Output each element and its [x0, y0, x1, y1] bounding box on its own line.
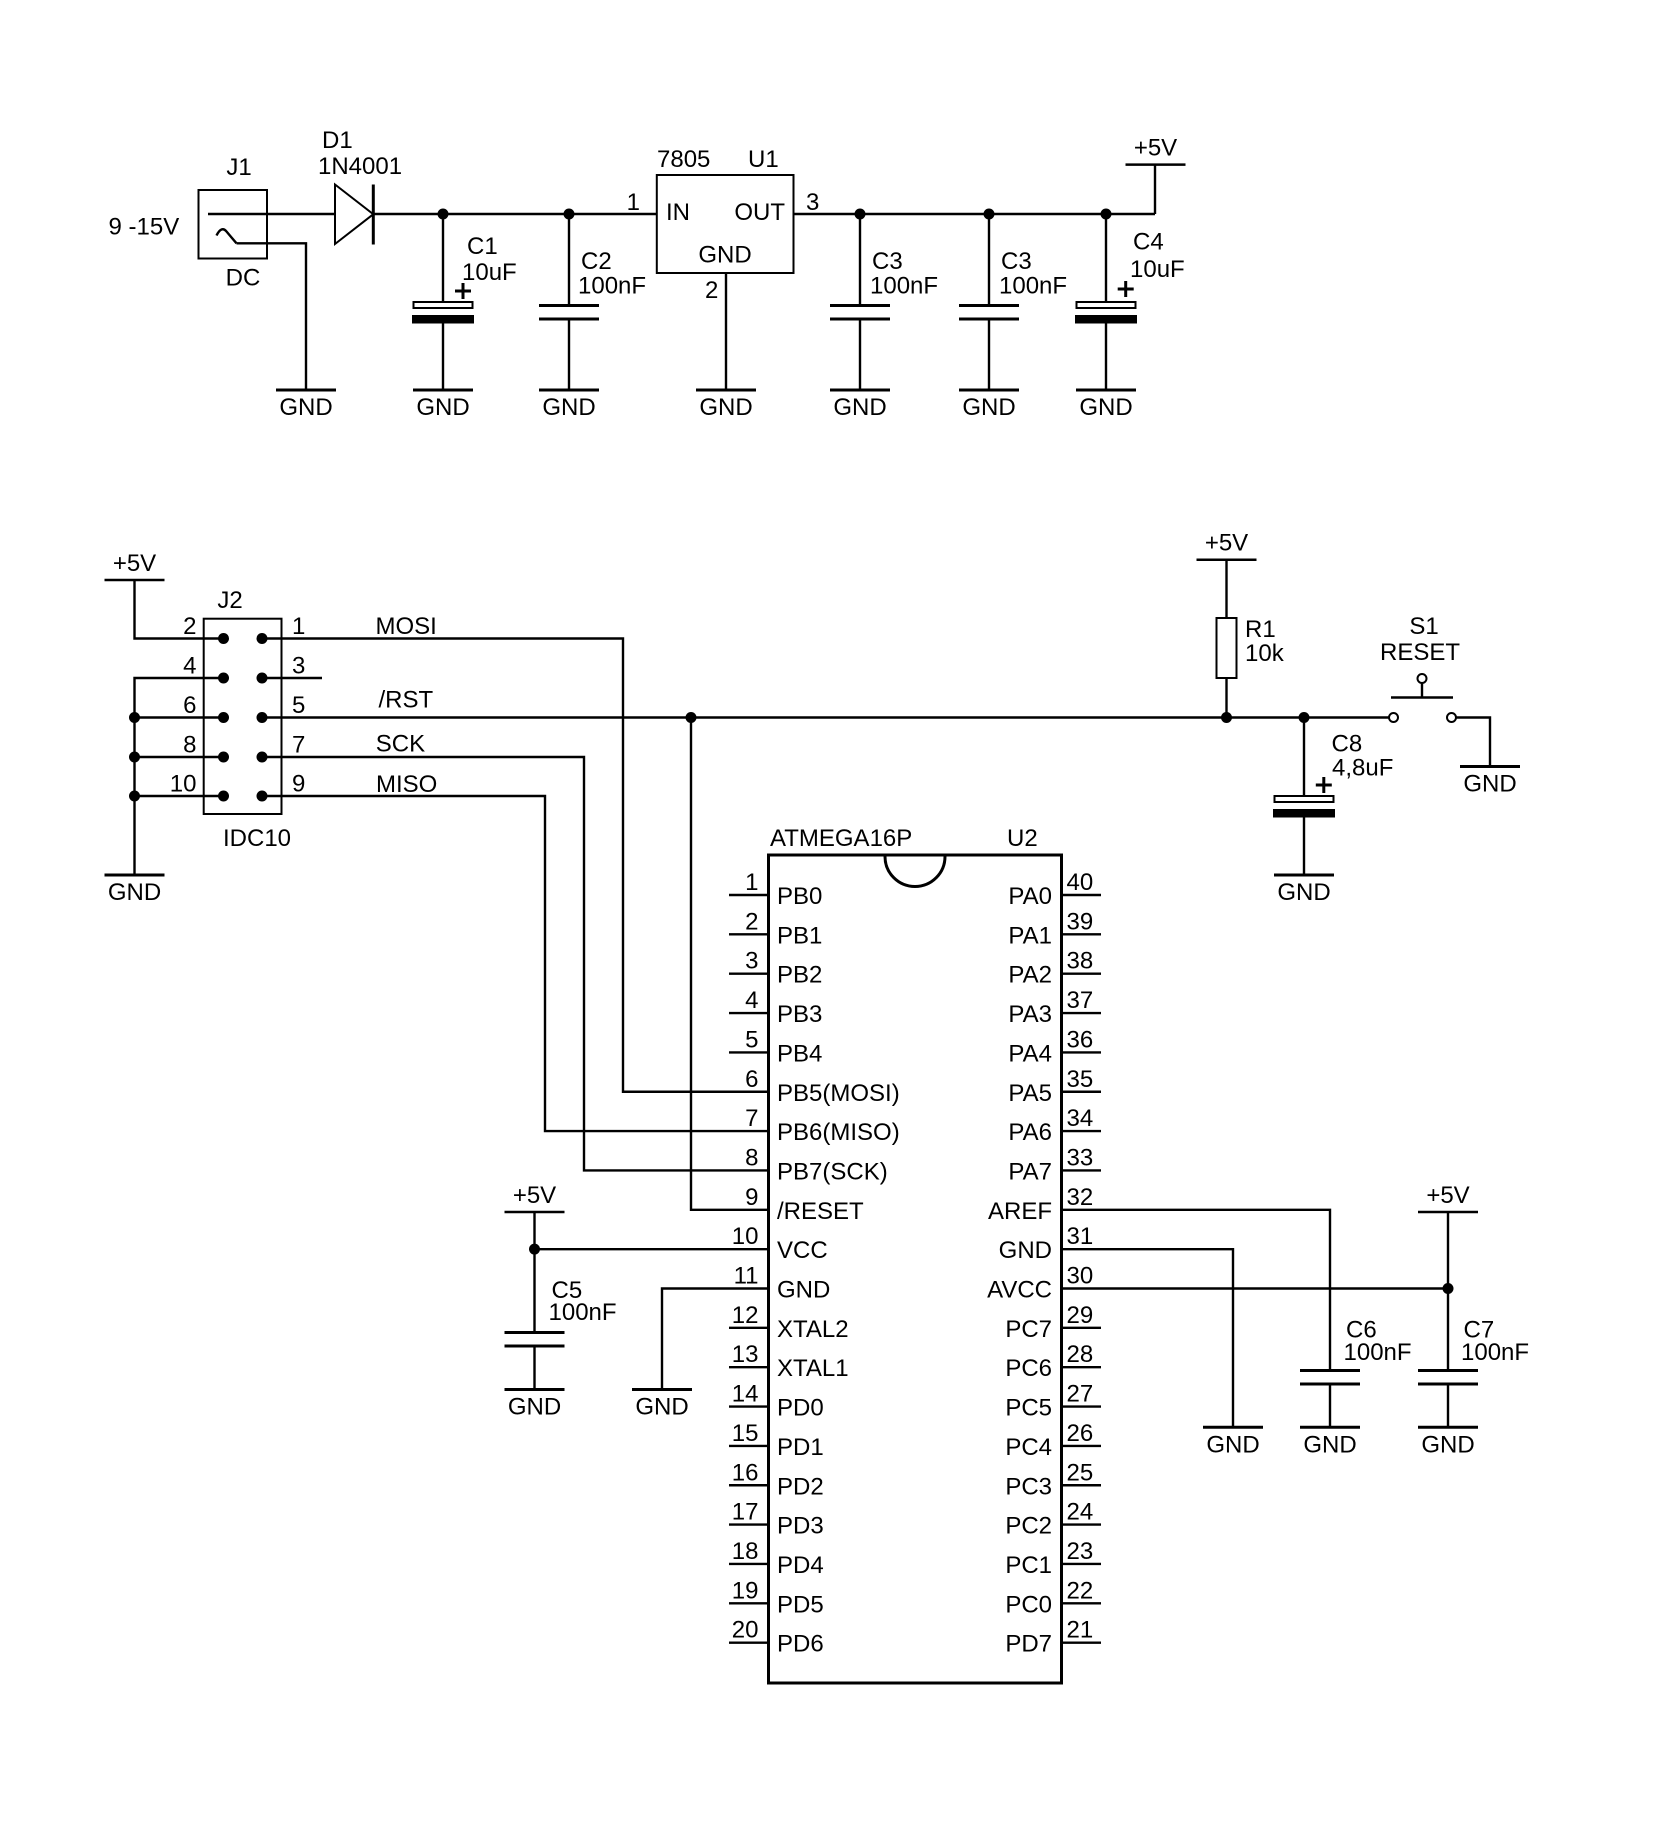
- ground (U1): [696, 389, 756, 392]
- svg-text:38: 38: [1067, 948, 1094, 975]
- svg-text:GND: GND: [999, 1237, 1052, 1264]
- svg-text:PC5: PC5: [1005, 1395, 1052, 1422]
- svg-text:R1: R1: [1245, 616, 1276, 643]
- svg-text:SCK: SCK: [376, 731, 425, 758]
- ground (U2 pin 31): [1203, 1426, 1263, 1429]
- svg-text:4: 4: [745, 987, 758, 1014]
- ground (U2 pin 11): [632, 1388, 692, 1391]
- svg-text:PC3: PC3: [1005, 1473, 1052, 1500]
- U2 pin 29 (PC7): [1062, 1327, 1102, 1329]
- J2 pin 6 stub: [135, 716, 224, 718]
- +5V (J2): [105, 579, 165, 582]
- svg-text:PA7: PA7: [1008, 1158, 1052, 1185]
- svg-text:GND: GND: [1421, 1431, 1474, 1458]
- svg-text:PD0: PD0: [777, 1395, 824, 1422]
- svg-text:100nF: 100nF: [578, 273, 646, 300]
- svg-text:+5V: +5V: [1134, 135, 1177, 162]
- svg-text:PA0: PA0: [1008, 883, 1052, 910]
- +5V (AVCC): [1418, 1211, 1478, 1214]
- svg-text:PA6: PA6: [1008, 1119, 1052, 1146]
- J2 pin dots row 1: [218, 633, 229, 644]
- svg-text:GND: GND: [279, 394, 332, 421]
- U2 pin 39 (PA1): [1062, 933, 1102, 935]
- svg-text:XTAL1: XTAL1: [777, 1355, 849, 1382]
- svg-text:7: 7: [745, 1105, 758, 1132]
- svg-text:U1: U1: [748, 146, 779, 173]
- svg-text:25: 25: [1067, 1459, 1094, 1486]
- svg-text:7: 7: [292, 732, 305, 759]
- svg-text:9: 9: [292, 771, 305, 798]
- svg-text:J1: J1: [226, 154, 251, 181]
- svg-text:19: 19: [732, 1577, 759, 1604]
- svg-text:26: 26: [1067, 1420, 1094, 1447]
- svg-text:PC2: PC2: [1005, 1513, 1052, 1540]
- svg-text:PA2: PA2: [1008, 962, 1052, 989]
- svg-text:IN: IN: [666, 199, 690, 226]
- svg-text:C8: C8: [1332, 731, 1363, 758]
- wire U1 OUT to +5V: [794, 213, 1156, 215]
- node R1 to /RST: [1221, 712, 1232, 723]
- U1 pin 2 wire: [725, 273, 727, 390]
- ground (S1): [1460, 765, 1520, 768]
- +5V (R1): [1197, 558, 1257, 561]
- svg-text:100nF: 100nF: [549, 1299, 617, 1326]
- connector J1 (DC jack): [199, 190, 268, 259]
- svg-text:PA4: PA4: [1008, 1040, 1052, 1067]
- capacitor C2 100nF: [568, 214, 570, 306]
- svg-text:10k: 10k: [1245, 640, 1285, 667]
- svg-text:C3: C3: [1001, 248, 1032, 275]
- svg-text:C1: C1: [467, 233, 498, 260]
- svg-text:GND: GND: [699, 394, 752, 421]
- wire AVCC net: [1062, 1287, 1449, 1289]
- svg-text:5: 5: [292, 692, 305, 719]
- svg-text:PC6: PC6: [1005, 1355, 1052, 1382]
- wire D1 to U1 IN: [373, 213, 657, 215]
- svg-text:GND: GND: [1206, 1431, 1259, 1458]
- U2 pin 16 (PD2): [729, 1484, 769, 1486]
- svg-text:27: 27: [1067, 1381, 1094, 1408]
- J2 pin 8 stub: [135, 756, 224, 758]
- junction pin10 rail: [129, 791, 140, 802]
- svg-text:D1: D1: [322, 127, 353, 154]
- wire MISO net: [262, 796, 769, 1131]
- svg-text:5: 5: [745, 1026, 758, 1053]
- U2 pin 37 (PA3): [1062, 1012, 1102, 1014]
- wire S1 to ground: [1456, 718, 1490, 767]
- svg-text:S1: S1: [1409, 613, 1438, 640]
- U2 pin 35 (PA5): [1062, 1091, 1102, 1093]
- svg-text:+5V: +5V: [1426, 1182, 1469, 1209]
- svg-text:GND: GND: [1463, 771, 1516, 798]
- svg-text:34: 34: [1067, 1105, 1094, 1132]
- capacitor C3 (first) 100nF: [859, 214, 861, 306]
- J2 left ground rail: [135, 678, 224, 875]
- svg-text:22: 22: [1067, 1577, 1094, 1604]
- svg-text:GND: GND: [962, 394, 1015, 421]
- svg-text:PD1: PD1: [777, 1434, 824, 1461]
- svg-text:PD4: PD4: [777, 1552, 824, 1579]
- svg-text:10uF: 10uF: [462, 259, 517, 286]
- svg-text:6: 6: [183, 692, 196, 719]
- svg-text:PD5: PD5: [777, 1591, 824, 1618]
- svg-text:15: 15: [732, 1420, 759, 1447]
- node at C4: [1101, 209, 1112, 220]
- U2 pin 28 (PC6): [1062, 1366, 1102, 1368]
- svg-text:40: 40: [1067, 869, 1094, 896]
- svg-text:33: 33: [1067, 1144, 1094, 1171]
- svg-text:XTAL2: XTAL2: [777, 1316, 849, 1343]
- svg-text:PB5(MOSI): PB5(MOSI): [777, 1080, 900, 1107]
- svg-text:OUT: OUT: [734, 199, 785, 226]
- svg-text:PD7: PD7: [1005, 1631, 1052, 1658]
- svg-text:+5V: +5V: [513, 1182, 556, 1209]
- resistor R1 10k: [1225, 560, 1227, 618]
- svg-text:17: 17: [732, 1499, 759, 1526]
- svg-text:32: 32: [1067, 1184, 1094, 1211]
- capacitor C7 100nF: [1447, 1289, 1449, 1371]
- node VCC/C5: [529, 1244, 540, 1255]
- svg-text:100nF: 100nF: [1344, 1339, 1412, 1366]
- U2 pin 26 (PC4): [1062, 1445, 1102, 1447]
- svg-text:10: 10: [170, 771, 197, 798]
- svg-text:1: 1: [292, 613, 305, 640]
- svg-text:C4: C4: [1133, 229, 1164, 256]
- +5V (VCC): [505, 1211, 565, 1214]
- U2 pin 36 (PA4): [1062, 1051, 1102, 1053]
- J2 pin dots row 3: [218, 712, 229, 723]
- svg-text:2: 2: [183, 613, 196, 640]
- U2 pin 15 (PD1): [729, 1445, 769, 1447]
- svg-text:J2: J2: [217, 587, 242, 614]
- IC U2 ATMEGA16P box: [769, 855, 1062, 1683]
- svg-text:PD2: PD2: [777, 1473, 824, 1500]
- svg-text:31: 31: [1067, 1223, 1094, 1250]
- svg-text:23: 23: [1067, 1538, 1094, 1565]
- regulator U1 7805: [657, 175, 794, 273]
- wire AREF to C6: [1062, 1210, 1331, 1371]
- wire +5V to J2 pin2: [135, 580, 224, 639]
- svg-text:+5V: +5V: [113, 550, 156, 577]
- J2 pin 10 stub: [135, 795, 224, 797]
- U2 pin 40 (PA0): [1062, 894, 1102, 896]
- J2 pin dots row 5: [218, 791, 229, 802]
- node at C3b: [984, 209, 995, 220]
- svg-text:MISO: MISO: [376, 771, 437, 798]
- svg-text:ATMEGA16P: ATMEGA16P: [770, 825, 912, 852]
- ground (C5): [505, 1388, 565, 1391]
- U2 pin 2 (PB1): [729, 933, 769, 935]
- svg-text:GND: GND: [777, 1277, 830, 1304]
- svg-text:VCC: VCC: [777, 1237, 828, 1264]
- svg-text:PB3: PB3: [777, 1001, 822, 1028]
- svg-text:PC7: PC7: [1005, 1316, 1052, 1343]
- junction pin8 rail: [129, 752, 140, 763]
- svg-text:GND: GND: [508, 1394, 561, 1421]
- wire +5V riser: [1154, 165, 1156, 214]
- U2 pin 34 (PA6): [1062, 1130, 1102, 1132]
- svg-text:/RESET: /RESET: [777, 1198, 864, 1225]
- svg-text:39: 39: [1067, 908, 1094, 935]
- node at C1: [438, 209, 449, 220]
- wire SCK net: [262, 757, 769, 1170]
- svg-text:GND: GND: [833, 394, 886, 421]
- svg-text:9 -15V: 9 -15V: [109, 214, 180, 241]
- capacitor C5 100nF: [533, 1249, 535, 1332]
- svg-text:30: 30: [1067, 1263, 1094, 1290]
- svg-text:AVCC: AVCC: [987, 1277, 1052, 1304]
- svg-text:20: 20: [732, 1617, 759, 1644]
- svg-text:13: 13: [732, 1341, 759, 1368]
- svg-text:GND: GND: [416, 394, 469, 421]
- svg-text:+5V: +5V: [1205, 530, 1248, 557]
- +5V (regulator output): [1126, 163, 1186, 166]
- wire /RST net: [262, 716, 1389, 718]
- svg-text:C2: C2: [581, 248, 612, 275]
- svg-text:18: 18: [732, 1538, 759, 1565]
- svg-text:35: 35: [1067, 1066, 1094, 1093]
- svg-text:10: 10: [732, 1223, 759, 1250]
- svg-text:GND: GND: [698, 242, 751, 269]
- ground (C4): [1076, 389, 1136, 392]
- U2 pin 13 (XTAL1): [729, 1366, 769, 1368]
- svg-text:PC4: PC4: [1005, 1434, 1052, 1461]
- svg-text:GND: GND: [1303, 1431, 1356, 1458]
- wire U2 pin 31 GND: [1062, 1249, 1234, 1427]
- wire +5V to AVCC: [1447, 1212, 1449, 1289]
- U2 pin 14 (PD0): [729, 1405, 769, 1407]
- svg-text:PD3: PD3: [777, 1513, 824, 1540]
- ground (C3 second): [959, 389, 1019, 392]
- svg-text:PB0: PB0: [777, 883, 822, 910]
- svg-text:RESET: RESET: [1380, 639, 1460, 666]
- U2 pin 33 (PA7): [1062, 1169, 1102, 1171]
- svg-text:AREF: AREF: [988, 1198, 1052, 1225]
- U2 pin 18 (PD4): [729, 1563, 769, 1565]
- svg-text:3: 3: [806, 189, 819, 216]
- svg-text:28: 28: [1067, 1341, 1094, 1368]
- U2 pin 23 (PC1): [1062, 1563, 1102, 1565]
- svg-text:2: 2: [705, 277, 718, 304]
- ground (J1): [276, 389, 336, 392]
- svg-text:1: 1: [745, 869, 758, 896]
- U2 pin 20 (PD6): [729, 1641, 769, 1643]
- node at C3a: [855, 209, 866, 220]
- svg-text:9: 9: [745, 1184, 758, 1211]
- capacitor C6 100nF: [1300, 1369, 1360, 1372]
- U2 pin 1 (PB0): [729, 894, 769, 896]
- junction pin6 rail: [129, 712, 140, 723]
- svg-text:PA3: PA3: [1008, 1001, 1052, 1028]
- svg-text:PA1: PA1: [1008, 922, 1052, 949]
- svg-text:MOSI: MOSI: [376, 613, 437, 640]
- svg-text:1N4001: 1N4001: [318, 153, 402, 180]
- svg-text:37: 37: [1067, 987, 1094, 1014]
- svg-text:10uF: 10uF: [1130, 256, 1185, 283]
- svg-text:PC0: PC0: [1005, 1591, 1052, 1618]
- J2 pin 3 stub: [262, 677, 322, 679]
- svg-text:21: 21: [1067, 1617, 1094, 1644]
- svg-text:GND: GND: [1277, 879, 1330, 906]
- ground (C1): [413, 389, 473, 392]
- U2 pin 27 (PC5): [1062, 1405, 1102, 1407]
- svg-text:4: 4: [183, 653, 196, 680]
- svg-text:8: 8: [183, 732, 196, 759]
- svg-text:100nF: 100nF: [870, 273, 938, 300]
- svg-text:6: 6: [745, 1066, 758, 1093]
- capacitor C1 10uF: [442, 214, 444, 302]
- U2 pin 22 (PC0): [1062, 1602, 1102, 1604]
- svg-text:GND: GND: [1079, 394, 1132, 421]
- J2 pin dots row 4: [218, 752, 229, 763]
- svg-text:3: 3: [745, 948, 758, 975]
- wire U2 pin 11 GND: [662, 1289, 769, 1390]
- svg-text:3: 3: [292, 653, 305, 680]
- svg-text:100nF: 100nF: [1461, 1339, 1529, 1366]
- U2 pin 12 (XTAL2): [729, 1327, 769, 1329]
- U2 pin 38 (PA2): [1062, 973, 1102, 975]
- U2 pin 4 (PB3): [729, 1012, 769, 1014]
- node C8 to /RST: [1299, 712, 1310, 723]
- U2 pin 21 (PD7): [1062, 1641, 1102, 1643]
- ground (C6): [1300, 1426, 1360, 1429]
- U2 pin 3 (PB2): [729, 973, 769, 975]
- ground (C2): [539, 389, 599, 392]
- svg-text:14: 14: [732, 1381, 759, 1408]
- svg-text:PB1: PB1: [777, 922, 822, 949]
- wire +5V to VCC pin 10: [535, 1212, 769, 1249]
- svg-text:100nF: 100nF: [999, 273, 1067, 300]
- svg-text:PD6: PD6: [777, 1631, 824, 1658]
- svg-text:12: 12: [732, 1302, 759, 1329]
- svg-text:36: 36: [1067, 1026, 1094, 1053]
- svg-text:PB2: PB2: [777, 962, 822, 989]
- ground (C7): [1418, 1426, 1478, 1429]
- wire MOSI net: [262, 639, 769, 1092]
- node at C2: [564, 209, 575, 220]
- ground (C3 first): [830, 389, 890, 392]
- diode D1 1N4001: [335, 185, 373, 245]
- svg-text:/RST: /RST: [379, 687, 434, 714]
- svg-text:PB7(SCK): PB7(SCK): [777, 1158, 888, 1185]
- svg-text:1: 1: [627, 189, 640, 216]
- svg-text:GND: GND: [635, 1394, 688, 1421]
- svg-text:PB4: PB4: [777, 1040, 822, 1067]
- svg-text:U2: U2: [1007, 825, 1038, 852]
- svg-text:29: 29: [1067, 1302, 1094, 1329]
- J1 pin 1 wire (VIN): [208, 213, 335, 215]
- svg-text:GND: GND: [542, 394, 595, 421]
- svg-text:24: 24: [1067, 1499, 1094, 1526]
- capacitor C3 (second) 100nF: [988, 214, 990, 306]
- svg-text:GND: GND: [108, 879, 161, 906]
- U2 pin 17 (PD3): [729, 1523, 769, 1525]
- connector J2 box: [204, 619, 282, 814]
- J1 sine symbol and pin 2 wire: [217, 229, 237, 243]
- node AVCC/C7: [1443, 1283, 1454, 1294]
- node /RESET branch: [686, 712, 697, 723]
- svg-text:11: 11: [734, 1263, 759, 1290]
- U2 pin 24 (PC2): [1062, 1523, 1102, 1525]
- svg-text:IDC10: IDC10: [223, 825, 291, 852]
- svg-text:PB6(MISO): PB6(MISO): [777, 1119, 900, 1146]
- svg-text:C3: C3: [872, 248, 903, 275]
- svg-text:4,8uF: 4,8uF: [1332, 755, 1393, 782]
- svg-text:8: 8: [745, 1144, 758, 1171]
- U2 pin 19 (PD5): [729, 1602, 769, 1604]
- svg-text:PA5: PA5: [1008, 1080, 1052, 1107]
- svg-text:7805: 7805: [657, 146, 710, 173]
- ground (J2): [105, 874, 165, 877]
- ground (C8): [1274, 874, 1334, 877]
- capacitor C4 10uF: [1105, 214, 1107, 302]
- svg-text:DC: DC: [226, 265, 261, 292]
- svg-text:2: 2: [745, 908, 758, 935]
- U2 pin 5 (PB4): [729, 1051, 769, 1053]
- J2 pin dots row 2: [218, 673, 229, 684]
- svg-text:16: 16: [732, 1459, 759, 1486]
- capacitor C8 4,8uF: [1303, 718, 1305, 797]
- U2 pin 25 (PC3): [1062, 1484, 1102, 1486]
- wire /RESET to U2 pin 9: [691, 718, 769, 1210]
- svg-text:PC1: PC1: [1005, 1552, 1052, 1579]
